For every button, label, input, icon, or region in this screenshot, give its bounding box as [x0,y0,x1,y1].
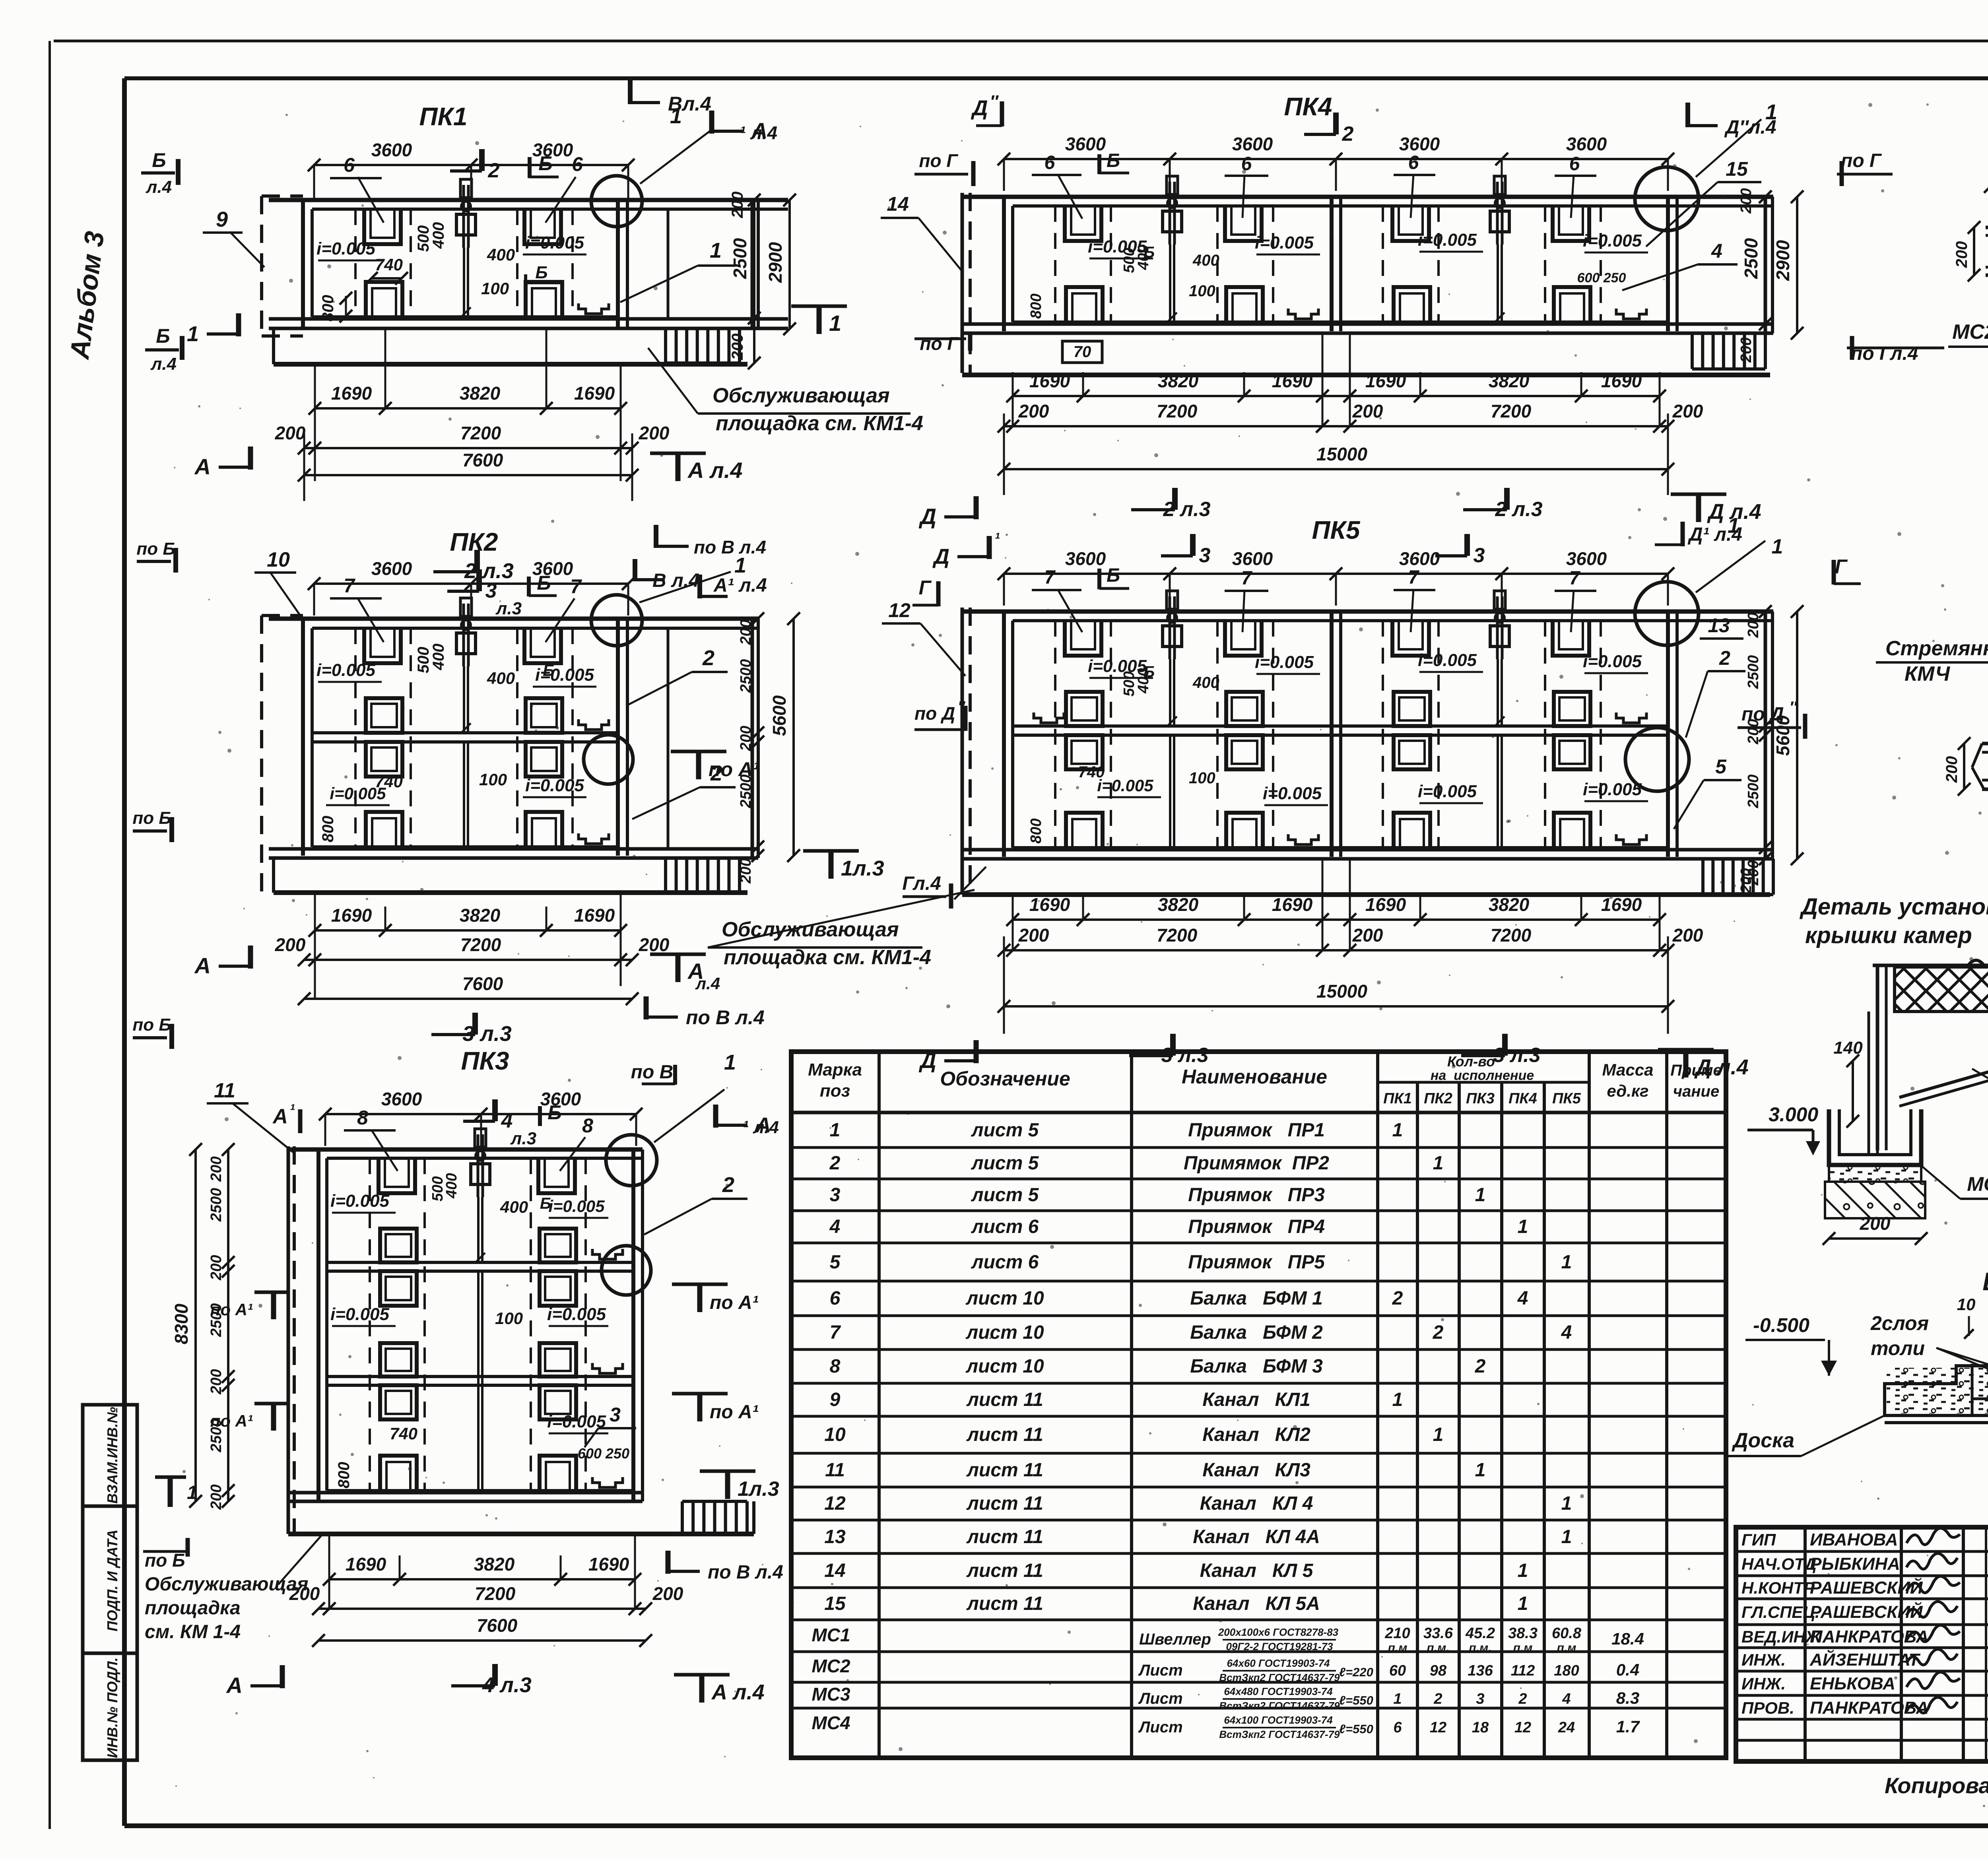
svg-text:Швеллер: Швеллер [1139,1631,1211,1648]
svg-text:ПК5: ПК5 [1312,516,1361,544]
svg-text:ПК5: ПК5 [1552,1090,1581,1107]
svg-text:1: 1 [1772,535,1783,558]
detail 1 dim 200 left [1973,227,1975,275]
PK4 corner circle & callouts [1635,167,1699,231]
svg-text:л.3: л.3 [495,599,522,618]
svg-text:ВстЗкп2 ГОСТ14637-79: ВстЗкп2 ГОСТ14637-79 [1219,1700,1340,1712]
svg-text:136: 136 [1468,1662,1493,1679]
lid vertical post [1876,965,1879,1150]
svg-text:1: 1 [1392,1120,1403,1141]
svg-text:600 250: 600 250 [1577,270,1626,285]
svg-text:Д: Д [932,545,949,569]
svg-text:64х100 ГОСТ19903-74: 64х100 ГОСТ19903-74 [1224,1714,1333,1726]
svg-text:800: 800 [1028,818,1044,843]
svg-text:3 л.3: 3 л.3 [1161,1044,1208,1067]
svg-text:7: 7 [570,575,582,598]
svg-text:13: 13 [1708,614,1730,637]
svg-text:8300: 8300 [171,1303,192,1344]
svg-text:1: 1 [1393,1691,1402,1707]
svg-text:3600: 3600 [1399,134,1440,154]
svg-text:3600: 3600 [1232,548,1273,569]
PK2 top dims [314,582,628,585]
svg-text:ЕНЬКОВА: ЕНЬКОВА [1810,1674,1895,1693]
svg-text:200: 200 [738,726,754,751]
left stamp column [83,1405,137,1760]
svg-text:Б: Б [535,263,547,282]
svg-text:1690: 1690 [1272,371,1313,391]
svg-text:200: 200 [275,934,306,955]
lid base hatch [1829,1165,1921,1182]
svg-text:МС3: МС3 [812,1684,850,1705]
svg-text:3600: 3600 [1232,134,1273,154]
svg-text:3: 3 [1199,544,1211,567]
svg-text:л.3: л.3 [510,1129,536,1148]
svg-text:7200: 7200 [1157,401,1198,421]
svg-text:i=0.005: i=0.005 [1418,650,1477,670]
svg-text:по А¹: по А¹ [710,1402,759,1423]
svg-text:Б: Б [1107,565,1120,586]
svg-text:Примямок ПР2: Примямок ПР2 [1184,1153,1329,1174]
svg-text:по А¹: по А¹ [210,1300,253,1319]
B-B board lines [1885,1414,1988,1417]
svg-text:ПК2: ПК2 [450,528,498,556]
svg-text:200: 200 [1018,925,1049,946]
svg-text:″: ″ [990,92,999,111]
svg-text:7200: 7200 [1491,401,1532,421]
svg-text:7: 7 [830,1322,841,1343]
svg-text:i=0.005: i=0.005 [1583,652,1642,671]
svg-text:200: 200 [208,1156,225,1182]
svg-text:Канал КЛ 5А: Канал КЛ 5А [1193,1593,1320,1614]
PK3 bottom dims [329,1578,635,1580]
svg-text:ПК4: ПК4 [1508,1090,1537,1107]
svg-text:5600: 5600 [1773,715,1793,756]
svg-text:15000: 15000 [1316,444,1367,464]
svg-text:лист 5: лист 5 [971,1120,1039,1141]
svg-text:1690: 1690 [1601,894,1642,915]
svg-text:ℓ=550: ℓ=550 [1339,1693,1373,1707]
svg-text:А¹ л.4: А¹ л.4 [713,575,767,596]
svg-text:1: 1 [1518,1216,1528,1237]
svg-text:100: 100 [495,1309,523,1328]
svg-text:по В: по В [631,1062,674,1083]
svg-text:1690: 1690 [1029,894,1070,915]
svg-text:740: 740 [375,772,403,791]
svg-text:РЫБКИНА: РЫБКИНА [1810,1554,1900,1574]
svg-text:ГИП: ГИП [1741,1530,1776,1549]
svg-text:2: 2 [1475,1356,1486,1377]
svg-text:740: 740 [1078,763,1105,781]
svg-text:1: 1 [1475,1460,1486,1481]
svg-text:i=0.005: i=0.005 [330,1305,390,1324]
svg-text:л.4: л.4 [150,354,177,374]
svg-text:Приме: Приме [1670,1062,1722,1079]
PK3 corner circles & callouts [606,1135,657,1186]
svg-text:740: 740 [375,255,403,274]
svg-text:лист 6: лист 6 [971,1216,1039,1237]
svg-text:7200: 7200 [460,934,501,955]
svg-text:ℓ=220: ℓ=220 [1339,1665,1373,1679]
svg-text:2: 2 [488,159,500,182]
svg-text:ВстЗкп2 ГОСТ14637-79: ВстЗкп2 ГОСТ14637-79 [1219,1672,1340,1683]
svg-text:ПАНКРАТОВА: ПАНКРАТОВА [1810,1627,1929,1646]
svg-text:i=0.005: i=0.005 [548,1197,605,1215]
svg-text:3600: 3600 [1065,134,1106,154]
B-B left slab [1885,1366,1988,1415]
svg-text:лист 11: лист 11 [966,1460,1043,1481]
svg-text:2слоя: 2слоя [1870,1312,1929,1334]
svg-text:3600: 3600 [371,558,412,579]
svg-text:1: 1 [1392,1389,1403,1410]
marks below PK5 [974,1040,979,1063]
svg-text:Н.КОНТР: Н.КОНТР [1741,1578,1815,1597]
svg-text:поз: поз [820,1081,850,1101]
svg-text:лист 10: лист 10 [965,1356,1044,1377]
svg-text:3600: 3600 [1566,548,1607,569]
svg-text:210: 210 [1384,1625,1410,1642]
PK3 top dims [325,1113,636,1115]
svg-text:ВЗАМ.ИНВ.№: ВЗАМ.ИНВ.№ [104,1407,120,1503]
svg-text:3820: 3820 [460,905,501,926]
page left edge [49,41,51,1829]
svg-text:ПРОВ.: ПРОВ. [1741,1699,1794,1717]
svg-text:ℓ=550: ℓ=550 [1339,1722,1373,1736]
svg-text:200: 200 [208,1484,225,1510]
svg-text:7600: 7600 [462,973,503,994]
svg-text:45.2: 45.2 [1465,1625,1495,1642]
svg-text:200: 200 [1953,241,1971,268]
svg-text:7: 7 [1044,567,1056,588]
svg-text:200: 200 [639,423,670,443]
svg-text:800: 800 [335,1462,353,1489]
svg-text:ВстЗкп2 ГОСТ14637-79: ВстЗкп2 ГОСТ14637-79 [1219,1728,1340,1740]
svg-text:ПАНКРАТОВА: ПАНКРАТОВА [1810,1698,1929,1718]
svg-text:18.4: 18.4 [1611,1629,1644,1648]
svg-text:8: 8 [357,1107,368,1129]
svg-text:2: 2 [1719,647,1730,669]
title block signature grid [1736,1550,1988,1553]
marks between PK4 and PK5 [974,496,979,519]
svg-text:п.м.: п.м. [1427,1641,1449,1654]
svg-text:Приямок ПР1: Приямок ПР1 [1188,1120,1325,1141]
svg-text:А л.4: А л.4 [687,458,743,483]
PK1 top dims [314,164,628,166]
svg-text:3600: 3600 [1399,548,1440,569]
svg-text:3820: 3820 [460,383,501,404]
svg-text:200: 200 [1352,925,1383,946]
svg-text:7200: 7200 [475,1583,516,1604]
svg-text:1: 1 [710,239,722,262]
svg-text:ед.кг: ед.кг [1607,1081,1648,1100]
svg-text:64х480 ГОСТ19903-74: 64х480 ГОСТ19903-74 [1224,1685,1333,1697]
svg-text:по Д: по Д [914,703,955,724]
svg-text:800: 800 [319,295,337,322]
svg-text:Д″л.4: Д″л.4 [1724,117,1776,138]
svg-text:лист 11: лист 11 [966,1593,1043,1614]
svg-text:лист 11: лист 11 [966,1560,1043,1581]
svg-text:70: 70 [1074,343,1091,361]
svg-text:В л.4: В л.4 [652,570,699,591]
svg-text:по В л.4: по В л.4 [686,1006,765,1029]
svg-text:7: 7 [1408,567,1420,588]
svg-text:200: 200 [1943,756,1961,783]
svg-text:лист 5: лист 5 [971,1153,1039,1174]
PK5 top dims [1004,573,1668,575]
svg-text:Б - Б: Б - Б [1982,1267,1988,1296]
svg-text:1690: 1690 [331,905,372,926]
lid 140 dim [1852,1061,1854,1121]
svg-text:по Б: по Б [145,1550,185,1571]
svg-text:1: 1 [1561,1493,1572,1514]
svg-text:2: 2 [1342,122,1354,146]
svg-text:400: 400 [500,1198,528,1216]
svg-text:по Б: по Б [132,1015,171,1035]
svg-text:i=0.005: i=0.005 [316,239,376,258]
svg-text:7600: 7600 [462,450,503,470]
PK5 corner circle & callouts [1635,582,1699,645]
svg-text:¹: ¹ [289,1101,295,1119]
svg-text:Б: Б [537,572,551,594]
svg-text:1: 1 [1561,1252,1572,1273]
detail 2 floor slab [1982,742,1988,746]
svg-text:12: 12 [824,1493,846,1514]
svg-text:5: 5 [830,1252,841,1273]
svg-text:2500: 2500 [1741,238,1761,279]
svg-text:6: 6 [1044,152,1055,173]
svg-text:3600: 3600 [1065,548,1106,569]
svg-text:1690: 1690 [346,1554,386,1575]
svg-text:Приямок ПР5: Приямок ПР5 [1188,1252,1325,1273]
svg-text:2500: 2500 [208,1188,225,1222]
svg-text:ПОДП. И ДАТА: ПОДП. И ДАТА [104,1530,120,1631]
svg-text:7200: 7200 [460,423,501,443]
svg-text:12: 12 [1514,1719,1531,1736]
svg-text:МС1: МС1 [1967,1173,1988,1195]
svg-text:400: 400 [1135,668,1152,693]
svg-text:РАШЕВСКИЙ: РАШЕВСКИЙ [1810,1602,1923,1622]
svg-text:200х100х6 ГОСТ8278-83: 200х100х6 ГОСТ8278-83 [1218,1626,1339,1638]
lid 200 dim [1829,1237,1921,1240]
svg-text:200: 200 [208,1255,225,1280]
svg-text:200: 200 [1738,868,1755,893]
svg-text:-0.500: -0.500 [1753,1314,1809,1336]
svg-text:Г: Г [919,577,932,599]
svg-text:ПК4: ПК4 [1284,92,1332,121]
svg-text:3: 3 [1474,544,1485,567]
svg-text:Альбом 3: Альбом 3 [64,229,110,361]
svg-text:МС4: МС4 [812,1712,850,1733]
svg-text:3820: 3820 [474,1554,515,1575]
svg-text:64х60 ГОСТ19903-74: 64х60 ГОСТ19903-74 [1227,1657,1330,1669]
svg-text:2: 2 [829,1153,841,1174]
svg-text:лист 10: лист 10 [965,1322,1044,1343]
svg-text:2 л.3: 2 л.3 [1163,498,1210,521]
svg-text:по В л.4: по В л.4 [708,1562,783,1583]
svg-text:200: 200 [738,619,754,645]
svg-text:по Гл.4: по Гл.4 [1851,343,1918,364]
svg-text:лист 6: лист 6 [971,1252,1039,1273]
PK1 bottom dims [315,407,621,410]
svg-text:Лист: Лист [1138,1662,1183,1679]
detail 2 dim 200 left [1963,744,1965,789]
svg-text:3820: 3820 [1489,894,1530,915]
svg-text:Б: Б [543,661,555,680]
svg-text:лист 10: лист 10 [965,1288,1044,1309]
svg-text:i=0.005: i=0.005 [330,1191,390,1211]
svg-text:А: А [226,1673,243,1698]
svg-text:400: 400 [1192,674,1219,691]
svg-text:15: 15 [1726,158,1748,180]
svg-text:Гл.4: Гл.4 [902,873,941,894]
svg-text:i=0.005: i=0.005 [1255,233,1314,252]
svg-text:6: 6 [344,154,355,176]
svg-text:3 л.3: 3 л.3 [462,1022,512,1046]
svg-text:1: 1 [187,322,199,346]
svg-text:Канал КЛ 5: Канал КЛ 5 [1200,1560,1314,1581]
svg-text:лист 11: лист 11 [966,1389,1043,1410]
svg-text:НАЧ.ОТД: НАЧ.ОТД [1741,1555,1817,1573]
svg-text:200: 200 [1745,612,1762,638]
svg-text:3600: 3600 [381,1089,422,1109]
title block outer [1736,1527,1988,1761]
svg-text:1: 1 [1518,1560,1528,1581]
svg-text:лист 5: лист 5 [971,1184,1039,1206]
svg-text:10: 10 [1957,1295,1976,1314]
svg-text:РАШЕВСКИЙ: РАШЕВСКИЙ [1810,1577,1923,1598]
lid sloped sheet [1899,1062,1988,1097]
svg-text:4: 4 [1562,1691,1571,1707]
svg-text:Деталь установки: Деталь установки [1799,894,1988,920]
svg-text:180: 180 [1554,1662,1579,1679]
svg-text:10: 10 [267,548,290,571]
svg-text:Приямок ПР4: Приямок ПР4 [1188,1216,1325,1237]
svg-text:Приямок ПР3: Приямок ПР3 [1188,1184,1325,1206]
svg-text:лист 11: лист 11 [966,1493,1043,1514]
svg-text:Лист: Лист [1138,1690,1183,1707]
svg-text:А: А [272,1105,288,1128]
svg-text:i=0.005: i=0.005 [316,660,376,680]
svg-text:площадка см. КМ1-4: площадка см. КМ1-4 [716,412,923,435]
svg-text:i=0.005: i=0.005 [1418,230,1477,250]
svg-text:12: 12 [1430,1719,1446,1736]
svg-text:5: 5 [1715,755,1727,778]
svg-text:Балка БФМ 1: Балка БФМ 1 [1190,1288,1323,1309]
svg-text:по Б: по Б [136,539,175,559]
svg-text:по Г: по Г [920,333,959,354]
svg-text:Канал КЛ3: Канал КЛ3 [1202,1460,1310,1481]
svg-text:12: 12 [888,599,911,621]
svg-text:площадка см. КМ1-4: площадка см. КМ1-4 [724,946,931,969]
svg-text:п.м.: п.м. [1469,1641,1491,1654]
svg-text:ИВАНОВА: ИВАНОВА [1810,1530,1898,1549]
PK1 corner circle [591,176,642,227]
svg-text:400: 400 [430,222,447,249]
svg-text:100: 100 [1189,282,1215,300]
svg-text:400: 400 [1192,252,1219,269]
svg-text:3 л.3: 3 л.3 [1493,1044,1540,1067]
svg-text:7200: 7200 [1491,925,1532,946]
svg-text:Б: Б [538,152,552,175]
svg-text:1690: 1690 [574,905,615,926]
svg-text:6: 6 [1569,153,1580,175]
svg-text:200: 200 [208,1369,225,1394]
svg-text:3: 3 [1476,1691,1484,1707]
svg-text:по Б: по Б [132,808,171,828]
svg-text:200: 200 [1860,1213,1891,1234]
svg-text:2500: 2500 [730,238,750,279]
svg-text:чание: чание [1673,1083,1719,1100]
svg-text:Копировал:: Копировал: [1885,1773,1988,1798]
svg-text:А л.4: А л.4 [711,1680,765,1704]
svg-text:200: 200 [1672,401,1703,421]
svg-text:2500: 2500 [738,659,754,693]
PK2 corner circles & callouts [591,595,642,646]
svg-text:200: 200 [1745,719,1762,744]
svg-text:6: 6 [830,1288,841,1309]
svg-text:2500: 2500 [1745,655,1762,689]
svg-text:1: 1 [1433,1424,1444,1445]
svg-text:площадка: площадка [145,1598,241,1619]
svg-text:200: 200 [738,858,754,883]
svg-text:200: 200 [639,934,670,955]
svg-text:1: 1 [724,1050,736,1074]
svg-text:100: 100 [481,279,509,298]
PK5 right dims [1764,612,1767,859]
svg-text:1: 1 [829,311,841,336]
svg-text:Г: Г [1835,555,1848,578]
svg-text:14: 14 [824,1560,845,1581]
svg-text:i=0.005: i=0.005 [547,1305,606,1324]
svg-text:Обслуживающая: Обслуживающая [712,384,890,407]
svg-text:МС2: МС2 [812,1656,850,1676]
svg-text:i=0.005: i=0.005 [1097,776,1153,795]
svg-text:по В л.4: по В л.4 [694,537,766,557]
svg-text:7: 7 [344,575,355,597]
svg-text:АЙЗЕНШТАТ: АЙЗЕНШТАТ [1809,1649,1920,1670]
svg-text:3600: 3600 [1566,134,1607,154]
svg-text:200: 200 [289,1583,320,1604]
svg-text:i=0.005: i=0.005 [1583,231,1642,250]
svg-text:4: 4 [1517,1288,1528,1309]
svg-text:11: 11 [825,1460,845,1481]
svg-text:8.3: 8.3 [1616,1689,1639,1707]
page top edge lines [54,40,1988,43]
svg-text:3820: 3820 [1489,371,1530,391]
svg-text:Вл.4: Вл.4 [668,93,711,115]
svg-text:толи: толи [1871,1337,1925,1359]
svg-text:2900: 2900 [1773,240,1793,281]
svg-text:200: 200 [652,1583,683,1604]
svg-text:МС1: МС1 [812,1625,850,1645]
svg-text:400: 400 [1135,245,1152,270]
svg-text:А: А [194,454,211,479]
svg-text:7200: 7200 [1157,925,1198,946]
svg-text:1690: 1690 [1029,371,1070,391]
svg-text:1л.3: 1л.3 [841,856,884,880]
svg-text:38.3: 38.3 [1508,1625,1538,1642]
svg-text:3: 3 [610,1404,621,1426]
svg-text:3820: 3820 [1158,371,1199,391]
svg-text:200: 200 [1018,401,1049,421]
svg-text:9: 9 [216,208,228,231]
lid bump [1968,960,1984,965]
svg-text:МС2: МС2 [1952,320,1988,344]
svg-text:6: 6 [572,153,583,175]
svg-text:п.м: п.м [1557,1641,1576,1654]
svg-text:4: 4 [1561,1322,1572,1343]
svg-text:60.8: 60.8 [1552,1625,1582,1642]
svg-text:1: 1 [1518,1593,1528,1614]
